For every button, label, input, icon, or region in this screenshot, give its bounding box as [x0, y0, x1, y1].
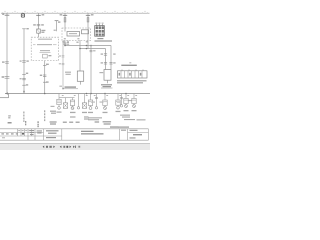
lamp device 4: [82, 94, 87, 114]
toolbar icons: [43, 146, 81, 148]
relay label text: [95, 38, 113, 42]
toolbar: [0, 144, 150, 150]
terminal fuse column x38: [33, 13, 44, 29]
arrow end wire2: [23, 90, 25, 92]
connector strip title: [121, 62, 137, 66]
lamp device 3: [70, 98, 76, 114]
pin labels under dashed box: [62, 38, 88, 43]
terminal fuse x65: [60, 13, 68, 31]
extra ground wire stubs and labels bottom row: [77, 94, 123, 110]
wire x79 to relay body: [79, 40, 81, 71]
lamp device 1: [51, 98, 62, 113]
title block cell texts: [1, 130, 142, 139]
relay carrier dashed box: [62, 28, 91, 41]
lamp device 7: [116, 94, 121, 113]
title block frame: [0, 129, 148, 140]
device cluster small labels: [62, 95, 137, 103]
track label marks: [8, 110, 88, 122]
component box left mid: [65, 71, 84, 85]
wire x65 lower with connector: [63, 40, 66, 45]
bus wire y45.5: [64, 45, 111, 47]
ground label underline left: [63, 86, 79, 88]
wire x91 to ground bus: [90, 45, 96, 94]
sub bus: [44, 93, 127, 98]
ruler ticks: [3, 12, 148, 13]
top ruler bus line: [1, 12, 150, 14]
title area small texts: [8, 121, 129, 128]
lamp device 2: [63, 98, 67, 109]
lamp device 6: [103, 94, 108, 114]
dark cell text: [22, 133, 24, 135]
connector strip caption: [117, 80, 147, 83]
lamp device 9: [132, 94, 137, 112]
component box right mid: [99, 70, 111, 84]
fuse S x38: [37, 29, 46, 37]
lamp device 8: [124, 94, 129, 112]
ruler numerals: [4, 11, 145, 12]
relay grid block: [95, 23, 105, 37]
long wire x68 to ground bus: [67, 40, 69, 44]
note icon: [21, 14, 24, 17]
ground bus: [0, 92, 150, 97]
wire x112 with connectors: [101, 49, 108, 70]
device caption text blocks: [88, 115, 146, 121]
wire x116: [109, 46, 115, 70]
terminal fuse x88: [86, 13, 94, 48]
connector strip: [118, 69, 148, 78]
wire second column: [22, 28, 29, 94]
ground label underline right: [101, 84, 113, 88]
bus wire y48.5: [79, 48, 105, 50]
ignition switch dashed box: [31, 37, 59, 60]
wire left battery: [6, 15, 8, 93]
wire from ignition switch down: [40, 61, 49, 94]
wire x63 from switch pin down: [59, 41, 65, 90]
title block top row dividers: [2, 130, 34, 138]
stub terminal x56: [54, 21, 61, 32]
lamp device 5: [88, 94, 93, 114]
terminal 30 left: [2, 13, 9, 15]
splice G on left wire: [2, 76, 10, 78]
connector marks wire 2 lower: [20, 73, 29, 86]
connector T on left wire: [2, 61, 9, 63]
connector on wire 2 upper: [20, 60, 29, 62]
